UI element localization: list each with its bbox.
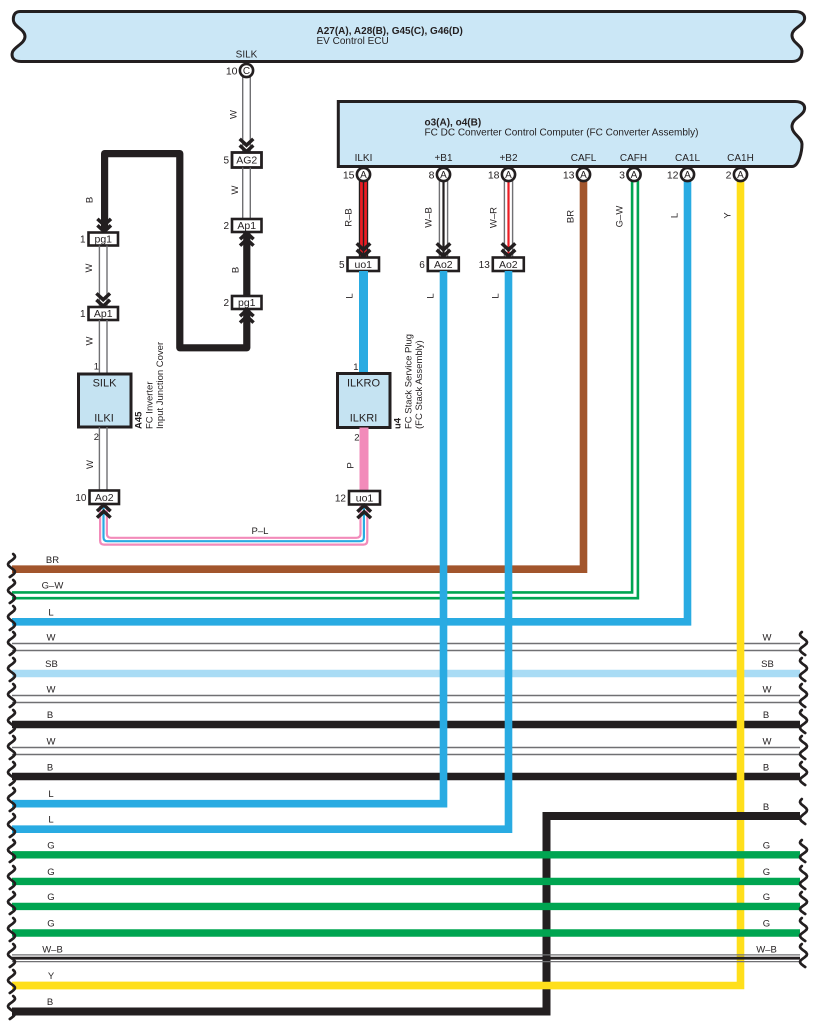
svg-text:2: 2	[94, 432, 99, 443]
svg-text:A45: A45	[134, 411, 145, 429]
arrow into 12 uo1	[357, 512, 371, 518]
svg-text:13: 13	[479, 260, 491, 271]
svg-text:A: A	[505, 170, 512, 181]
svg-text:A: A	[684, 170, 691, 181]
svg-text:G: G	[47, 841, 54, 852]
svg-text:B: B	[85, 197, 96, 203]
wire W from ILKI pin2 to Ao2	[98, 427, 100, 491]
svg-text:pg1: pg1	[94, 234, 112, 246]
svg-text:B: B	[47, 997, 53, 1008]
wire G bus 2	[12, 878, 800, 885]
svg-text:A: A	[440, 170, 447, 181]
svg-text:1: 1	[353, 362, 358, 373]
svg-text:SILK: SILK	[236, 50, 258, 61]
wire P-L from Ao2 to uo1	[100, 506, 367, 545]
svg-text:12: 12	[667, 169, 679, 181]
svg-text:L: L	[670, 213, 681, 218]
wire Y from CA1H	[12, 181, 741, 986]
service plug u4 ILKRO/ILKRI	[338, 374, 391, 428]
svg-text:Y: Y	[723, 212, 734, 219]
wire L from 6 Ao2 down to left edge	[12, 271, 444, 804]
junction block A45 SILK/ILKI	[79, 374, 132, 427]
svg-text:ILKRI: ILKRI	[350, 413, 378, 425]
svg-text:8: 8	[429, 169, 435, 181]
svg-text:W: W	[47, 737, 56, 748]
connector 5 AG2	[232, 153, 262, 168]
FC DC Converter Control Computer banner o3/o4	[338, 102, 804, 167]
wire W bus 3	[12, 747, 800, 749]
svg-text:G–W: G–W	[42, 581, 64, 592]
svg-text:FC Stack Service Plug: FC Stack Service Plug	[404, 334, 415, 429]
svg-text:2: 2	[354, 433, 359, 444]
svg-text:G: G	[763, 867, 770, 878]
wire L from CA1L	[12, 181, 688, 622]
svg-text:+B1: +B1	[434, 153, 453, 164]
svg-text:Ao2: Ao2	[499, 259, 518, 271]
svg-text:CAFH: CAFH	[620, 153, 647, 164]
svg-text:1: 1	[80, 235, 86, 246]
svg-text:2: 2	[223, 221, 229, 232]
svg-text:L: L	[48, 789, 53, 800]
wire G bus 1	[12, 851, 800, 858]
pin 8 A +B1	[437, 168, 450, 181]
svg-text:L: L	[426, 293, 437, 298]
svg-text:+B2: +B2	[499, 153, 518, 164]
wire B bus 1	[12, 721, 800, 728]
svg-text:A: A	[580, 170, 587, 181]
svg-text:BR: BR	[46, 555, 59, 566]
svg-text:u4: u4	[393, 417, 404, 429]
wire W from AG2 to Ap1	[242, 168, 244, 220]
pin 18 A +B2	[502, 168, 515, 181]
pin 3 A CAFH	[627, 168, 640, 181]
connector 1 Ap1 (left column)	[89, 307, 119, 320]
svg-text:FC Inverter: FC Inverter	[145, 381, 156, 429]
svg-text:Input Junction Cover: Input Junction Cover	[155, 342, 166, 429]
svg-text:G–W: G–W	[615, 206, 626, 228]
svg-text:G: G	[763, 841, 770, 852]
wire R-B from ILKI pin to uo1	[359, 181, 368, 258]
svg-text:Ap1: Ap1	[237, 220, 256, 232]
svg-text:SILK: SILK	[93, 378, 118, 390]
svg-text:B: B	[47, 710, 53, 721]
svg-text:W–R: W–R	[489, 207, 500, 228]
wire L from uo1 to ILKRO pin1	[359, 271, 368, 374]
wire G-W from CAFH	[12, 181, 638, 598]
pin 15 A ILKI	[357, 168, 370, 181]
svg-text:G: G	[763, 919, 770, 930]
svg-text:SB: SB	[761, 659, 774, 670]
connector 13 Ao2	[493, 258, 524, 272]
svg-text:W: W	[763, 685, 772, 696]
svg-text:uo1: uo1	[356, 492, 374, 504]
svg-text:1: 1	[80, 309, 86, 320]
svg-text:CAFL: CAFL	[571, 153, 597, 164]
svg-text:G: G	[47, 867, 54, 878]
svg-text:10: 10	[226, 65, 238, 77]
connector 2 Ap1 (right column)	[232, 219, 262, 232]
svg-text:Ao2: Ao2	[95, 492, 114, 504]
svg-text:C: C	[243, 66, 250, 77]
svg-text:L: L	[345, 293, 356, 298]
connector 1 pg1 (left column)	[89, 233, 119, 246]
wire B bus 2	[12, 773, 800, 780]
wire W-B bus	[12, 954, 800, 956]
pin 12 A CA1L	[681, 168, 694, 181]
wire B from pg1 up to Ap1	[243, 232, 250, 296]
svg-text:L: L	[48, 815, 53, 826]
connector 10 Ao2	[90, 491, 120, 505]
svg-text:BR: BR	[566, 210, 577, 223]
svg-text:A: A	[737, 170, 744, 181]
svg-text:W–B: W–B	[42, 945, 63, 956]
svg-text:B: B	[47, 763, 53, 774]
svg-text:5: 5	[223, 156, 229, 167]
torn-end marks right edge	[800, 632, 807, 655]
svg-text:A: A	[631, 170, 638, 181]
svg-text:W: W	[763, 633, 772, 644]
svg-text:ILKRO: ILKRO	[347, 378, 380, 390]
svg-text:AG2: AG2	[236, 155, 257, 167]
torn-end marks left edge	[8, 554, 15, 577]
thick black wire B - S shaped run	[105, 154, 247, 348]
pin 2 A CA1H	[734, 168, 747, 181]
svg-text:L: L	[48, 608, 53, 619]
svg-text:W: W	[47, 685, 56, 696]
svg-text:P–L: P–L	[252, 526, 269, 537]
svg-text:Ao2: Ao2	[434, 259, 453, 271]
svg-text:15: 15	[343, 169, 355, 181]
svg-text:10: 10	[75, 493, 87, 504]
svg-text:W–B: W–B	[756, 945, 777, 956]
svg-text:G: G	[763, 892, 770, 903]
wire BR from CAFL	[12, 181, 584, 569]
svg-text:G: G	[47, 892, 54, 903]
svg-text:W: W	[230, 185, 241, 194]
wire G bus 3	[12, 903, 800, 910]
wire SB bus	[12, 670, 800, 677]
connector 5 uo1	[348, 258, 380, 272]
svg-text:W: W	[229, 110, 240, 119]
svg-text:EV Control ECU: EV Control ECU	[317, 36, 389, 47]
wire W from pg1 to Ap1 (left)	[98, 246, 100, 308]
svg-text:6: 6	[419, 260, 425, 271]
svg-text:5: 5	[339, 260, 345, 271]
svg-text:(FC Stack Assembly): (FC Stack Assembly)	[414, 340, 425, 429]
svg-text:18: 18	[488, 169, 500, 181]
svg-text:W–B: W–B	[424, 207, 435, 228]
svg-text:B: B	[763, 763, 769, 774]
wire W from pin C to AG2	[242, 77, 244, 152]
svg-text:A: A	[360, 170, 367, 181]
svg-text:1: 1	[94, 362, 99, 373]
wire W from Ap1 to SILK box	[98, 320, 100, 374]
wire W bus 2	[12, 695, 800, 697]
wire W-B from +B1 pin to Ao2	[438, 181, 440, 257]
svg-text:W: W	[763, 737, 772, 748]
svg-text:P: P	[346, 462, 357, 468]
svg-text:FC DC Converter Control Comput: FC DC Converter Control Computer (FC Con…	[425, 128, 699, 139]
connector 12 uo1	[349, 491, 380, 505]
svg-text:3: 3	[619, 169, 625, 181]
svg-text:W: W	[85, 460, 96, 469]
wire G bus 4	[12, 929, 800, 936]
svg-text:B: B	[763, 802, 769, 813]
svg-text:2: 2	[223, 298, 229, 309]
svg-text:Y: Y	[48, 971, 55, 982]
svg-text:12: 12	[335, 493, 347, 504]
svg-text:G: G	[47, 919, 54, 930]
wire W bus 1	[12, 643, 800, 645]
svg-text:Ap1: Ap1	[94, 308, 113, 320]
svg-text:SB: SB	[45, 659, 58, 670]
svg-text:CA1H: CA1H	[727, 153, 754, 164]
svg-text:CA1L: CA1L	[675, 153, 700, 164]
arrow into 10 Ao2	[97, 511, 111, 517]
wire B from right edge down to bottom left	[12, 816, 800, 1012]
wire P from ILKRI pin2 to uo1	[360, 428, 369, 492]
svg-text:W: W	[84, 263, 95, 272]
pin 10 C on EV ECU	[240, 64, 253, 77]
connector 2 pg1 (right column)	[232, 296, 262, 309]
wire L from 13 Ao2 down to left edge	[12, 271, 509, 829]
svg-text:uo1: uo1	[354, 259, 372, 271]
wire W-R from +B2 pin to Ao2	[503, 181, 505, 257]
svg-text:13: 13	[563, 169, 575, 181]
svg-text:L: L	[491, 293, 502, 298]
svg-text:B: B	[231, 267, 242, 273]
svg-text:ILKI: ILKI	[94, 413, 114, 425]
svg-text:W: W	[85, 336, 96, 345]
svg-text:ILKI: ILKI	[355, 153, 373, 164]
svg-text:W: W	[47, 633, 56, 644]
arrow into AG2	[240, 139, 254, 145]
pin 13 A CAFL	[577, 168, 590, 181]
connector 6 Ao2	[428, 258, 459, 272]
wire Y segment over black vertical	[12, 982, 700, 990]
svg-text:pg1: pg1	[238, 297, 256, 309]
svg-text:B: B	[763, 710, 769, 721]
ECU banner A27/A28/G45/G46 EV Control ECU	[12, 12, 805, 62]
svg-text:R–B: R–B	[344, 208, 355, 226]
svg-text:2: 2	[726, 169, 732, 181]
arrow into 1 pg1	[97, 219, 111, 225]
